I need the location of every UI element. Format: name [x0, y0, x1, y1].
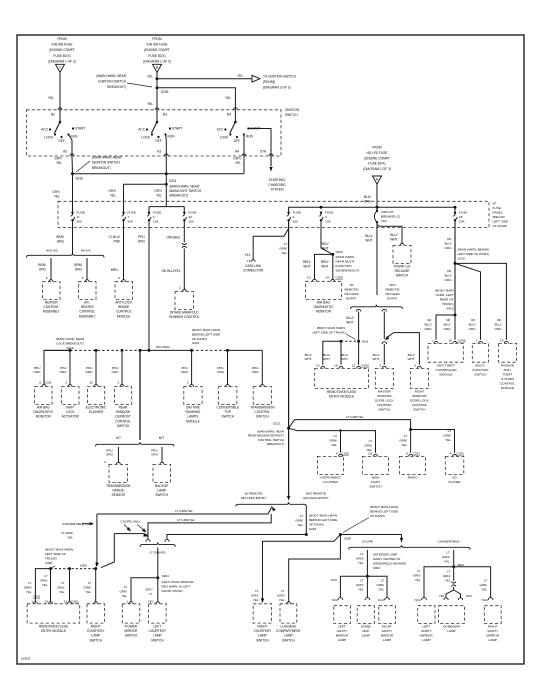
passive anti-theft box: [499, 343, 517, 362]
pin keyless 16: [339, 366, 343, 368]
svg-text:ORG: ORG: [112, 370, 120, 374]
svg-text:COMPARTMENT: COMPARTMENT: [276, 629, 301, 633]
pointer convertible only: [82, 523, 89, 525]
svg-text:GRN/: GRN/: [295, 518, 303, 522]
svg-text:C250: C250: [342, 451, 350, 455]
svg-text:LOCK: LOCK: [220, 136, 230, 140]
svg-text:ORG: ORG: [106, 453, 114, 457]
svg-text:(MAIN HARN, NEAR: (MAIN HARN, NEAR: [56, 337, 85, 341]
label GRY/YEL A2: [54, 157, 62, 165]
wire w/ remote branch: [358, 312, 360, 342]
pin 8 radio: [406, 451, 408, 455]
svg-text:1: 1: [153, 215, 155, 219]
svg-text:COUPE: COUPE: [362, 540, 373, 544]
wire to keyless pin23: [69, 569, 71, 602]
fork pin left: [356, 309, 360, 311]
label LT GRN/YEL conv wire: [61, 531, 73, 539]
pin 3 master: [379, 363, 381, 367]
svg-text:(BODY MAIN HARN,: (BODY MAIN HARN,: [192, 328, 221, 332]
svg-text:(DIAGRAM 1 OF 3): (DIAGRAM 1 OF 3): [143, 59, 171, 63]
wire line A w/ remote: [97, 507, 272, 515]
bus solid right: [228, 349, 263, 351]
svg-text:CONTROLLER: CONTROLLER: [435, 368, 457, 372]
svg-text:LOCK: LOCK: [44, 136, 54, 140]
wire S221 lower branch instrument: [289, 428, 341, 453]
svg-text:LT: LT: [484, 579, 487, 583]
wire S223 to fork right pin: [167, 535, 306, 540]
inline connector ORG/BLK: [182, 243, 186, 248]
svg-text:WHT: WHT: [303, 264, 310, 268]
svg-text:S220: S220: [336, 250, 344, 254]
svg-text:LAMP: LAMP: [338, 638, 346, 642]
pin STA: [269, 154, 273, 156]
svg-text:S221: S221: [273, 422, 281, 426]
svg-text:GRN/: GRN/: [57, 585, 65, 589]
svg-text:KEYLESS ENTRY: KEYLESS ENTRY: [241, 496, 266, 500]
shift lock actuator drop: [69, 350, 71, 384]
wire S210 to passive module: [455, 263, 506, 339]
svg-text:ORG: ORG: [57, 239, 65, 243]
svg-text:M/T: M/T: [159, 436, 165, 440]
svg-text:W/O REMOTE: W/O REMOTE: [306, 492, 326, 496]
label right courtesy b wire: [251, 589, 259, 602]
svg-text:CHARGING: CHARGING: [268, 183, 286, 187]
svg-text:SWITCH: SWITCH: [155, 493, 168, 497]
junction S411: [357, 340, 360, 343]
dome/map lamp box coupe: [357, 606, 374, 624]
svg-text:WINDSHIELD HEADER): WINDSHIELD HEADER): [373, 562, 406, 566]
svg-text:15: 15: [500, 339, 504, 343]
svg-text:YEL: YEL: [444, 559, 450, 563]
anti-theft controller module box: [428, 343, 463, 362]
svg-text:5: 5: [46, 276, 48, 280]
wire fuse7 out: [123, 222, 125, 281]
svg-text:RIGHT: RIGHT: [415, 390, 425, 394]
svg-text:WINDOW: WINDOW: [116, 410, 130, 414]
pin multi-function 7: [479, 341, 483, 343]
svg-text:GRN/: GRN/: [356, 556, 364, 560]
svg-text:RADIO: RADIO: [408, 476, 418, 480]
svg-text:A4: A4: [235, 149, 239, 153]
svg-text:LT: LT: [446, 551, 449, 555]
label BLU/WHT pin10: [304, 353, 311, 361]
transmission range sensor box: [109, 464, 128, 482]
svg-text:ACC: ACC: [138, 128, 145, 132]
svg-text:YEL: YEL: [281, 251, 287, 255]
label right vanity coupe: [377, 579, 385, 592]
svg-text:ORG: ORG: [468, 327, 476, 331]
svg-text:4: 4: [336, 451, 338, 455]
svg-text:NCA: NCA: [482, 598, 488, 602]
junction S306 left: [94, 567, 97, 570]
svg-text:MULTI-: MULTI-: [475, 364, 485, 368]
svg-text:21: 21: [352, 363, 356, 367]
label RED/WHT right: [321, 260, 329, 268]
backup lamp switch box: [153, 464, 171, 482]
svg-text:ORG: ORG: [181, 370, 189, 374]
wire fuse9 LT GRN/YEL main: [288, 222, 290, 498]
convertible top switch drop: [227, 350, 229, 384]
label left courtesy wire: [145, 588, 152, 596]
heater control assembly box: [43, 282, 61, 300]
svg-text:RUNNING: RUNNING: [186, 410, 201, 414]
arrow convertible only: [89, 522, 94, 525]
junction radio/cd: [409, 428, 412, 431]
pin 2 trans range: [104, 460, 106, 464]
svg-text:10A: 10A: [128, 219, 134, 223]
label wire right courtesy a: [84, 581, 92, 594]
label power mirror wire: [120, 585, 128, 598]
label BLU/WHT master: [372, 353, 379, 361]
svg-text:MAIN/LIGHT SWITCH: MAIN/LIGHT SWITCH: [170, 189, 202, 193]
label YEL B wire lower: [147, 102, 153, 106]
wire fuse4 out: [321, 222, 333, 255]
label left vanity conv: [413, 569, 421, 582]
label wire pin23: [57, 581, 65, 594]
svg-text:YEL: YEL: [54, 194, 60, 198]
label pointer main harn near ignition switch breakout: [96, 74, 126, 89]
svg-text:MIRROR: MIRROR: [125, 629, 139, 633]
svg-text:BEHIND LEFT SIDE: BEHIND LEFT SIDE: [370, 510, 398, 514]
pin 4 cd: [450, 451, 452, 455]
text S226: [56, 337, 85, 350]
svg-text:YEL: YEL: [358, 587, 364, 591]
svg-text:LT: LT: [360, 579, 363, 583]
svg-text:FUSE: FUSE: [128, 211, 136, 215]
left vanity mirror lamp box conv: [418, 606, 435, 624]
svg-text:YEL: YEL: [235, 161, 241, 165]
svg-text:16: 16: [449, 339, 453, 343]
svg-text:23: 23: [64, 600, 68, 604]
svg-text:LT: LT: [281, 589, 284, 593]
svg-text:SWITCH: SWITCH: [125, 634, 138, 638]
svg-text:LEFT SIDE: LEFT SIDE: [493, 220, 509, 224]
label S411: [362, 340, 369, 344]
junction S219: [190, 349, 193, 352]
svg-text:ENTRY: ENTRY: [387, 297, 397, 301]
cd player box: [445, 456, 464, 474]
arrow into lamp brace: [400, 538, 403, 543]
svg-text:RANGE: RANGE: [113, 489, 124, 493]
svg-text:LAMP: LAMP: [488, 638, 496, 642]
svg-text:BLU/: BLU/: [495, 322, 502, 326]
wire C to ignition B2: [59, 73, 61, 110]
pin master window: [382, 366, 386, 368]
fork pin right: [382, 309, 386, 311]
fuse 10: [182, 212, 186, 222]
label A4: [235, 149, 239, 153]
junction S214: [165, 183, 168, 186]
label BLU/WHT pin16: [323, 353, 330, 361]
svg-text:LAMP: LAMP: [422, 638, 430, 642]
pointer to S411: [346, 334, 356, 340]
anti-lock brake control module box: [115, 282, 133, 300]
svg-text:11: 11: [77, 215, 80, 219]
pin 10 air bag: [307, 276, 311, 280]
svg-text:FUSE BOX): FUSE BOX): [148, 54, 165, 58]
svg-text:ORG: ORG: [444, 246, 452, 250]
multi-function switch box: [472, 343, 488, 362]
label instrument cluster wire: [329, 434, 337, 447]
label LT GRN/YEL main: [279, 242, 287, 255]
svg-text:LT: LT: [417, 569, 420, 573]
svg-text:WHT: WHT: [321, 246, 328, 250]
svg-text:OF DASH): OF DASH): [493, 224, 508, 228]
label DK BLU/ORG pin15: [494, 318, 502, 331]
svg-text:RUN: RUN: [168, 135, 176, 139]
label STA: [260, 149, 267, 153]
label radio wire: [399, 434, 407, 447]
svg-text:COUPE ONLY: COUPE ONLY: [120, 519, 140, 523]
svg-text:YEL: YEL: [378, 587, 384, 591]
svg-text:YEL: YEL: [48, 96, 54, 100]
svg-text:3: 3: [414, 363, 416, 367]
svg-text:TRANSMISSION: TRANSMISSION: [106, 484, 131, 488]
pin left courtesy: [156, 602, 160, 604]
svg-text:RUN: RUN: [71, 135, 79, 139]
svg-text:INTAKE MANIFOLD: INTAKE MANIFOLD: [170, 311, 199, 315]
svg-text:INSTRUMENT: INSTRUMENT: [320, 476, 340, 480]
svg-text:WINDOW/: WINDOW/: [377, 394, 392, 398]
svg-text:VANITY: VANITY: [382, 629, 393, 633]
label wire pin10b: [40, 574, 48, 587]
svg-text:LT: LT: [404, 434, 407, 438]
fuse 9: [287, 212, 291, 222]
pin 14 air bag: [325, 276, 329, 280]
junction keyless C402: [49, 567, 52, 570]
wire to left vanity coupe: [340, 576, 367, 598]
label GRY/YEL A4: [233, 157, 241, 165]
svg-text:W/: W/: [350, 283, 354, 287]
svg-text:BLU/: BLU/: [444, 322, 451, 326]
svg-text:FROM: FROM: [372, 146, 382, 150]
svg-text:REMOTE/KEYLESS: REMOTE/KEYLESS: [327, 390, 356, 394]
svg-text:SWITCH: SWITCH: [369, 485, 381, 489]
master window door lock box: [375, 368, 393, 388]
text w/ remote keyless entry: [344, 283, 358, 301]
wire B to ignition B3: [156, 73, 158, 110]
svg-text:REMOTE/: REMOTE/: [385, 288, 399, 292]
svg-text:LT: LT: [381, 579, 384, 583]
label NCA right vanity conv: [482, 598, 488, 602]
svg-text:GRN/: GRN/: [279, 246, 287, 250]
text S412: [435, 289, 454, 311]
svg-text:(BODY MAIN HARN,: (BODY MAIN HARN,: [370, 505, 399, 509]
svg-text:LAMP: LAMP: [362, 634, 370, 638]
svg-text:SWITCH: SWITCH: [151, 638, 164, 642]
label cd wire: [443, 429, 451, 442]
svg-text:A3: A3: [157, 149, 161, 153]
svg-text:BREAKOUT): BREAKOUT): [170, 194, 189, 198]
pin 23 keyless b: [64, 600, 68, 604]
svg-text:A/C-: A/C-: [84, 301, 90, 305]
main light switch box: [363, 456, 389, 474]
svg-text:LEFT SIDE OF TRUNK): LEFT SIDE OF TRUNK): [312, 331, 345, 335]
pin 2 intake: [179, 286, 181, 290]
svg-text:CONTROL: CONTROL: [377, 403, 392, 407]
svg-text:ORG: ORG: [217, 370, 225, 374]
svg-text:LT: LT: [360, 552, 363, 556]
svg-text:FUNCTION: FUNCTION: [336, 264, 352, 268]
left vanity mirror lamp box coupe: [334, 606, 351, 624]
svg-text:YEL: YEL: [121, 594, 127, 598]
svg-text:REMOTE/KEYLESS: REMOTE/KEYLESS: [39, 625, 68, 629]
svg-text:REAR: REAR: [119, 406, 129, 410]
luggage compartment lamp switch box: [280, 604, 297, 623]
svg-text:ANTI-THEFT: ANTI-THEFT: [437, 364, 455, 368]
svg-text:GRN/: GRN/: [377, 583, 385, 587]
pin radio: [409, 454, 413, 456]
label NCA 1: [331, 578, 337, 582]
svg-text:HARN, LEFT: HARN, LEFT: [435, 293, 453, 297]
svg-text:CONVERTIBLE: CONVERTIBLE: [217, 406, 239, 410]
svg-text:KEYLESS ENTRY: KEYLESS ENTRY: [303, 496, 328, 500]
pin 1 anti-theft: [431, 339, 433, 343]
svg-text:GRN/: GRN/: [442, 555, 450, 559]
ignition switch bank 1: [41, 110, 85, 143]
svg-text:GRN/: GRN/: [413, 573, 421, 577]
svg-text:B3: B3: [163, 113, 167, 117]
svg-text:S412: S412: [446, 307, 454, 311]
pin right courtesy a: [94, 602, 98, 604]
pin left vanity coupe: [338, 598, 343, 600]
pin instrument cluster: [339, 454, 343, 456]
arrow w/remote branch: [271, 506, 276, 512]
junction S223: [305, 533, 308, 536]
svg-text:YEL: YEL: [253, 598, 259, 602]
svg-text:AIR BAG: AIR BAG: [317, 301, 330, 305]
pin 10 keyless: [316, 363, 320, 367]
label BLU/ORG: [364, 195, 372, 203]
svg-text:(MAIN HARN, NEAR: (MAIN HARN, NEAR: [92, 156, 122, 160]
wire S306b to lamp brace: [340, 535, 401, 540]
label S306 right: [344, 537, 352, 541]
svg-text:100635: 100635: [21, 657, 31, 661]
intake manifold runner control box: [175, 292, 194, 310]
svg-text:LT GRN/YEL: LT GRN/YEL: [346, 415, 364, 419]
diagram id text: [21, 657, 31, 661]
svg-text:VANITY: VANITY: [337, 629, 348, 633]
text coupe only: [120, 519, 140, 523]
label YEL B4 wire: [225, 96, 231, 100]
junction on B wire: [156, 77, 159, 80]
wire S306b to right courtesy b: [263, 535, 341, 601]
arrow to starting/charging: [269, 167, 272, 172]
label S306 left: [80, 564, 88, 568]
bus S216 to A4 wire: [73, 173, 245, 175]
svg-text:LT: LT: [447, 570, 450, 574]
junction S221: [287, 427, 290, 430]
pin dome map coupe: [365, 598, 370, 600]
svg-text:(MAIN HARN, NEAR: (MAIN HARN, NEAR: [170, 185, 200, 189]
svg-text:LT: LT: [284, 242, 287, 246]
svg-text:GRN/: GRN/: [399, 438, 407, 442]
svg-text:GRN/: GRN/: [24, 585, 32, 589]
svg-text:LT: LT: [300, 514, 303, 518]
wire fork down to S304: [157, 548, 159, 578]
svg-text:9: 9: [293, 215, 295, 219]
pointer line to S205: [127, 83, 152, 87]
svg-text:MAIN: MAIN: [372, 476, 380, 480]
svg-text:OFF: OFF: [234, 139, 240, 143]
svg-text:GRN/: GRN/: [364, 443, 372, 447]
svg-text:POWER: POWER: [125, 625, 138, 629]
svg-text:BREAKER 12: BREAKER 12: [381, 214, 400, 218]
pin right vanity conv: [488, 598, 493, 600]
label GRY/YEL fuse11 wire: [52, 190, 60, 198]
pin right vanity coupe: [385, 598, 390, 600]
wire to dome map conv upper: [453, 567, 455, 581]
svg-text:REMOTE/: REMOTE/: [344, 288, 358, 292]
svg-text:MODULE: MODULE: [117, 314, 131, 318]
svg-text:RIGHT: RIGHT: [91, 625, 101, 629]
svg-text:STA: STA: [260, 149, 267, 153]
svg-text:LT GRN/YEL: LT GRN/YEL: [177, 518, 195, 522]
pin anti-theft 16: [453, 341, 457, 343]
svg-text:GRN/: GRN/: [40, 578, 48, 582]
svg-text:DK BLU/YEL: DK BLU/YEL: [162, 269, 181, 273]
source text left: [48, 37, 76, 63]
wire to keyless pin 21: [358, 341, 360, 365]
junction S220: [331, 253, 334, 256]
wire fuse1 out PPL/ORG: [148, 222, 150, 351]
text S214 breakout: [170, 185, 202, 198]
svg-text:(BELOW: (BELOW: [493, 215, 505, 219]
svg-text:YEL: YEL: [445, 578, 451, 582]
svg-text:YEL: YEL: [237, 74, 243, 78]
source text HD LPS: [363, 146, 391, 172]
label S205: [161, 90, 169, 94]
label w/o branch: [295, 514, 303, 527]
air bag diagnostic monitor drop: [44, 350, 70, 384]
wire line B diag: [144, 534, 148, 536]
junction fuse16 feed: [454, 206, 457, 209]
label B2: [51, 113, 55, 117]
svg-text:LEFT SIDE OF DASH): LEFT SIDE OF DASH): [458, 252, 489, 256]
svg-text:LT: LT: [149, 592, 152, 596]
pin keyless 10: [321, 366, 325, 368]
svg-text:SWITCH: SWITCH: [256, 638, 269, 642]
junction bus convertible top: [226, 349, 229, 352]
svg-text:CONTROL: CONTROL: [116, 310, 132, 314]
junction S306 right: [339, 533, 342, 536]
ignition switch dashed box: [26, 110, 281, 156]
svg-text:GRN/: GRN/: [251, 593, 259, 597]
wire master window down: [383, 344, 385, 365]
svg-text:2: 2: [179, 286, 181, 290]
arrow coupe only right: [142, 528, 148, 534]
power mirror switch box: [122, 604, 140, 623]
svg-text:(ENGINE COMPT: (ENGINE COMPT: [49, 48, 75, 52]
svg-text:HARN, CENTER OF: HARN, CENTER OF: [373, 557, 401, 561]
remote keyless entry module box bottom: [27, 604, 79, 623]
svg-text:NEAR MULTI-: NEAR MULTI-: [336, 260, 356, 264]
svg-text:MONITOR: MONITOR: [36, 415, 52, 419]
svg-text:DAYTIME: DAYTIME: [186, 406, 200, 410]
label BLU/WHT pin21: [341, 353, 348, 361]
label pointer S216 breakout: [92, 156, 122, 170]
svg-text:RIGHT: RIGHT: [488, 625, 498, 629]
svg-text:YEL: YEL: [415, 578, 421, 582]
svg-text:ACTUATOR: ACTUATOR: [62, 415, 80, 419]
svg-text:ANTI-: ANTI-: [503, 368, 511, 372]
wire down to S306 left: [96, 514, 98, 566]
svg-text:HEATER: HEATER: [81, 305, 94, 309]
pin 21 keyless: [352, 363, 356, 367]
label YEL data link: [244, 253, 250, 257]
wire to keyless pin 10: [323, 341, 341, 365]
wire S214 split to fuse1 fuse10: [149, 184, 184, 211]
